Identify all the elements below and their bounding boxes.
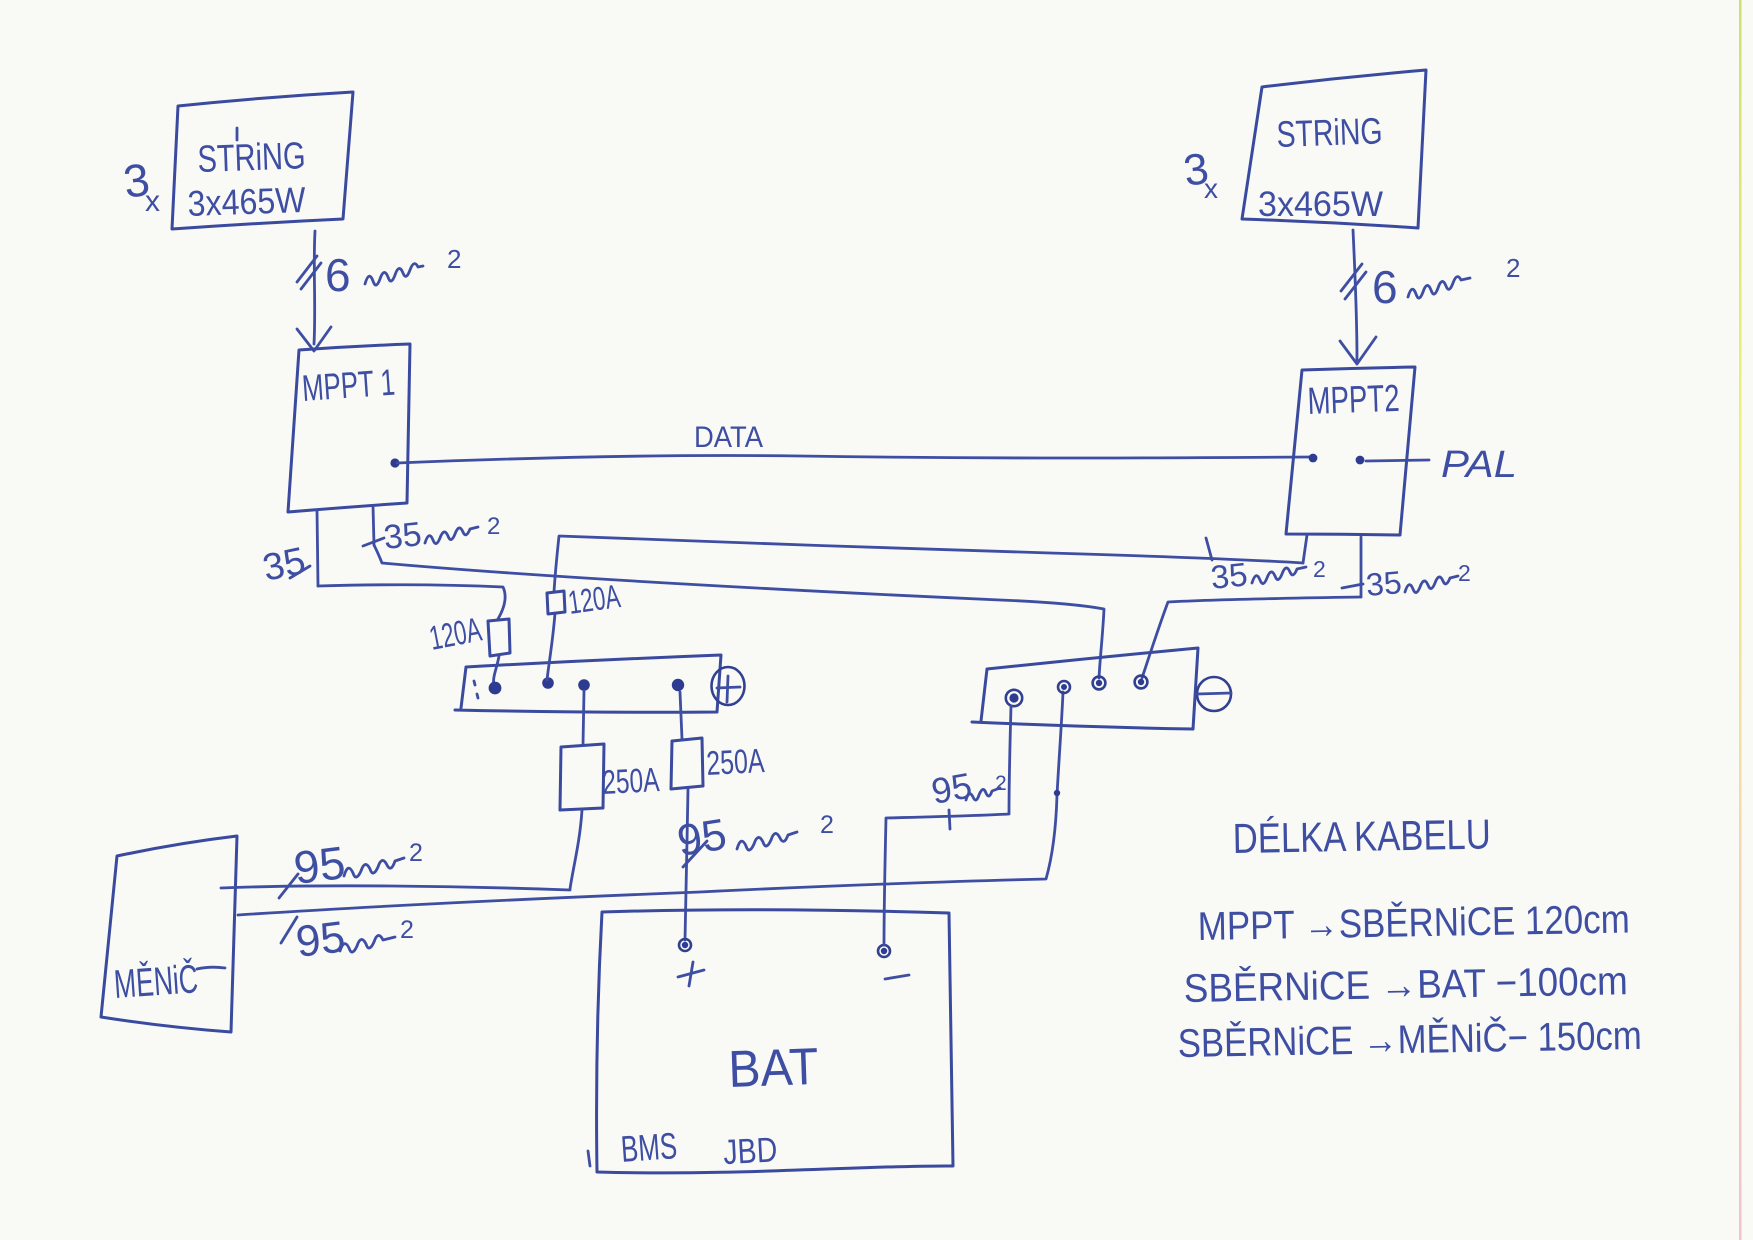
arrowhead into MPPT2 bbox=[1340, 337, 1376, 364]
tick on 35mm2 label MPPT2 minus bbox=[1342, 584, 1363, 588]
svg-text:2: 2 bbox=[1506, 253, 1520, 283]
svg-text:250A: 250A bbox=[601, 761, 660, 802]
wire MENIC to F3 (95mm2) bbox=[221, 886, 570, 890]
MPPT2 data pin right bbox=[1356, 456, 1365, 465]
fuse F1 120A body bbox=[488, 619, 510, 656]
fuse F4 250A body bbox=[671, 738, 703, 789]
scanner edge strip bbox=[1739, 0, 1742, 1240]
svg-text:DATA: DATA bbox=[694, 421, 763, 454]
minus bus terminal N4 bbox=[1135, 676, 1148, 689]
svg-text:2: 2 bbox=[995, 772, 1007, 795]
label 6mm2 (PV2-MPPT2 cable) bbox=[1372, 253, 1520, 313]
MPPT1 minus stub wire bbox=[373, 506, 374, 545]
svg-text:MPPT →SBĚRNiCE 120cm: MPPT →SBĚRNiCE 120cm bbox=[1197, 896, 1630, 949]
svg-text:STRiNG: STRiNG bbox=[1276, 110, 1383, 155]
svg-text:6: 6 bbox=[1372, 261, 1398, 313]
minus bus bar B- outline bbox=[972, 648, 1198, 729]
svg-text:2: 2 bbox=[400, 916, 414, 944]
tick on 95mm2 label N1 bbox=[949, 810, 950, 829]
wire minus bus N1 to battery minus (95mm2) bbox=[884, 706, 1011, 945]
wire plus bus to fuse F2 and MPPT2 plus bbox=[547, 536, 1303, 680]
tick on 35mm2 label MPPT2 plus bbox=[1206, 538, 1212, 560]
svg-text:95: 95 bbox=[293, 912, 348, 967]
svg-text:2: 2 bbox=[447, 244, 461, 274]
plus bus terminal P2 bbox=[542, 677, 554, 689]
battery plus sign bbox=[678, 962, 704, 986]
svg-text:x: x bbox=[145, 185, 160, 218]
pen tick at battery corner bbox=[588, 1151, 590, 1166]
wire MPPT1 minus to minus bus terminal N3 bbox=[374, 545, 1104, 678]
svg-text:SBĚRNiCE →MĚNiČ− 150cm: SBĚRNiCE →MĚNiČ− 150cm bbox=[1177, 1013, 1642, 1066]
cable slash marks 6mm2 left bbox=[297, 256, 321, 289]
MPPT1 data pin bbox=[390, 458, 399, 467]
minus bus terminal N3 bbox=[1093, 677, 1106, 690]
MPPT2 data pin left bbox=[1309, 454, 1318, 463]
minus symbol on bus B- bbox=[1197, 677, 1231, 711]
svg-text:2: 2 bbox=[1313, 556, 1326, 582]
label MENIC bbox=[112, 956, 225, 1007]
svg-text:JBD: JBD bbox=[722, 1130, 778, 1172]
svg-text:35: 35 bbox=[1209, 555, 1249, 596]
MPPT1 plus stub wire bbox=[317, 510, 318, 586]
svg-text:250A: 250A bbox=[705, 742, 765, 783]
wire plus bus P4 to fuse F4 bbox=[680, 692, 682, 739]
svg-text:2: 2 bbox=[820, 811, 834, 839]
svg-text:95: 95 bbox=[674, 810, 730, 866]
tick on 35 label bbox=[290, 566, 310, 578]
wire F1 to plus bus bbox=[494, 656, 499, 685]
svg-text:MPPT 1: MPPT 1 bbox=[301, 362, 397, 409]
svg-text:35: 35 bbox=[259, 540, 309, 590]
label 95mm2 (bus to inverter cable A) bbox=[279, 836, 423, 898]
svg-text:35: 35 bbox=[382, 515, 424, 557]
PV string box PV1 (STRING 3x465W) bbox=[172, 92, 353, 229]
svg-text:6: 6 bbox=[325, 249, 351, 301]
svg-text:2: 2 bbox=[487, 513, 500, 540]
DATA line MPPT1 to MPPT2 bbox=[397, 455, 1311, 463]
wire F3 to inverter junction bbox=[570, 810, 582, 889]
label 95mm2 (minus bus to battery) bbox=[928, 765, 1006, 812]
arrowhead into MPPT1 bbox=[297, 327, 331, 351]
svg-text:MĚNiČ: MĚNiČ bbox=[112, 956, 199, 1007]
svg-text:2: 2 bbox=[409, 839, 423, 867]
wire MPPT2 minus to minus bus terminal N4 bbox=[1142, 597, 1361, 678]
svg-text:3x465W: 3x465W bbox=[187, 179, 306, 224]
svg-text:BMS: BMS bbox=[620, 1125, 679, 1170]
svg-text:120A: 120A bbox=[566, 577, 623, 621]
wire MPPT1 plus to fuse F1 bbox=[318, 585, 505, 619]
plus bus terminal P4 bbox=[672, 679, 684, 691]
svg-text:MPPT2: MPPT2 bbox=[1307, 378, 1400, 423]
label 35mm2 (MPPT2 minus cable) bbox=[1364, 560, 1470, 603]
svg-text:95: 95 bbox=[291, 836, 348, 894]
svg-text:x: x bbox=[1204, 173, 1218, 204]
inverter box MENIC bbox=[101, 836, 237, 1032]
wire MPPT2 to PAL bbox=[1366, 460, 1429, 461]
plus bus terminal P1 bbox=[489, 682, 502, 695]
wire plus bus P3 to fuse F3 bbox=[583, 691, 584, 745]
wire MENIC to minus bus terminal N2 (95mm2) bbox=[238, 692, 1063, 915]
fuse F3 250A body bbox=[560, 744, 604, 810]
svg-text:PAL: PAL bbox=[1441, 444, 1517, 486]
svg-text:DÉLKA KABELU: DÉLKA KABELU bbox=[1232, 811, 1491, 862]
MPPT charge controller MPPT1 bbox=[288, 344, 410, 512]
junction dot on MENIC minus wire bbox=[1054, 790, 1060, 796]
MPPT charge controller MPPT2 bbox=[1286, 367, 1415, 535]
plus bus bar B+ outline bbox=[455, 655, 721, 712]
svg-text:35: 35 bbox=[1364, 564, 1403, 603]
label 3x (PV1 quantity) bbox=[120, 153, 160, 218]
battery box BAT bbox=[597, 910, 953, 1173]
minus bus terminal N2 bbox=[1058, 681, 1070, 693]
wire F4 to battery plus bbox=[685, 789, 688, 940]
svg-text:STRiNG: STRiNG bbox=[197, 135, 306, 181]
label 95mm2 (bus to inverter cable B) bbox=[281, 912, 414, 967]
wire PV2 to MPPT2 (arrow) bbox=[1353, 230, 1357, 360]
svg-text:2: 2 bbox=[1458, 560, 1471, 586]
MPPT2 minus stub wire bbox=[1360, 537, 1363, 597]
minus bus terminal N1 bbox=[1006, 690, 1022, 706]
battery plus terminal bbox=[679, 939, 691, 951]
svg-text:BAT: BAT bbox=[727, 1038, 819, 1099]
plus bus terminal P3 bbox=[578, 679, 590, 691]
label 3x (PV2 quantity) bbox=[1181, 144, 1218, 204]
battery minus terminal bbox=[878, 945, 890, 957]
label 35mm2 (MPPT1 minus cable) bbox=[382, 513, 500, 557]
label 95mm2 (bus to battery cable) bbox=[674, 810, 834, 867]
MPPT2 plus stub wire bbox=[1303, 535, 1307, 563]
label 35mm2 (MPPT2 plus cable) bbox=[1209, 555, 1326, 596]
wire PV1 to MPPT1 (arrow) bbox=[314, 231, 315, 344]
tick on 35mm2 label MPPT1 bbox=[363, 538, 384, 546]
battery minus sign bbox=[885, 975, 909, 979]
cable slash marks 6mm2 right bbox=[1341, 264, 1366, 299]
svg-text:95: 95 bbox=[928, 765, 975, 812]
PV string box PV2 (STRING 3x465W) bbox=[1242, 70, 1426, 228]
svg-text:3x465W: 3x465W bbox=[1258, 185, 1383, 224]
plus symbol on bus B+ bbox=[712, 667, 745, 705]
svg-text:SBĚRNiCE →BAT −100cm: SBĚRNiCE →BAT −100cm bbox=[1183, 958, 1628, 1011]
label 6mm2 (PV1-MPPT1 cable) bbox=[325, 244, 461, 301]
fuse F2 120A body bbox=[547, 591, 565, 614]
